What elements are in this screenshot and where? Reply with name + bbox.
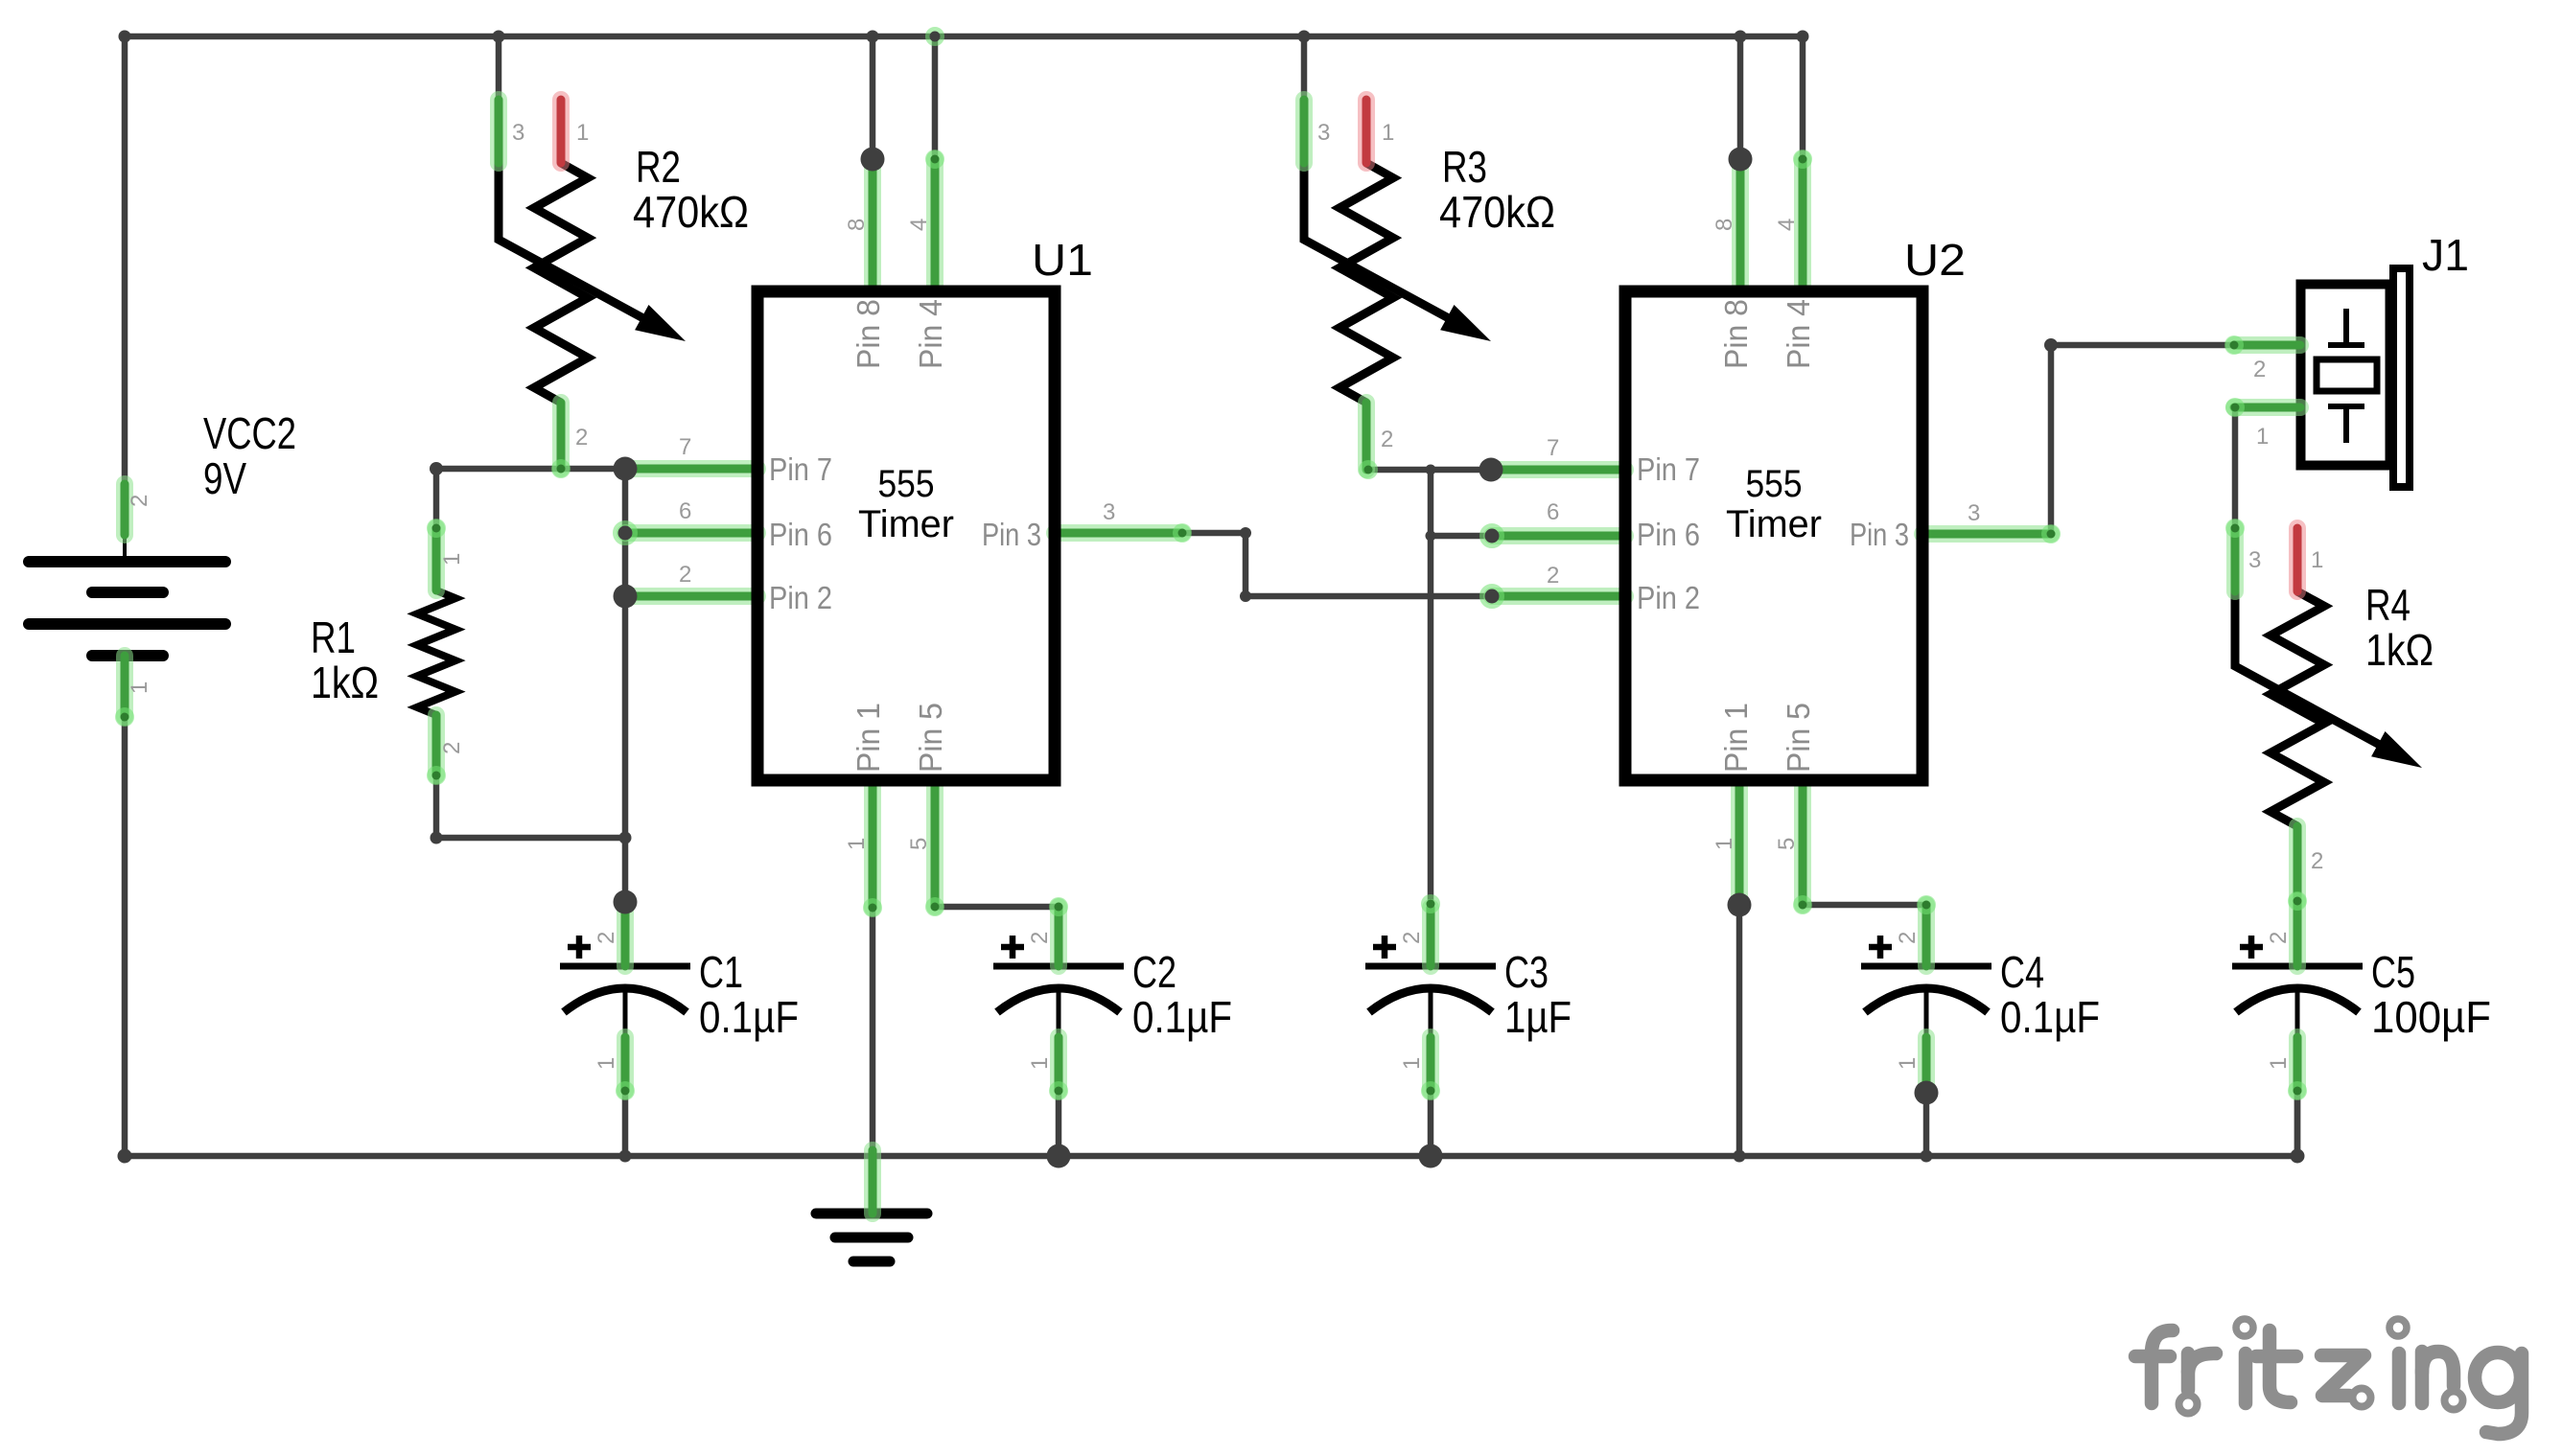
svg-text:2: 2 (1399, 932, 1425, 944)
svg-text:Pin 1: Pin 1 (850, 703, 886, 773)
svg-text:Pin 3: Pin 3 (1850, 517, 1909, 552)
svg-text:R3: R3 (1442, 142, 1487, 192)
svg-text:2: 2 (1381, 427, 1393, 452)
svg-text:1: 1 (1027, 1057, 1053, 1070)
svg-text:555: 555 (1746, 463, 1803, 505)
svg-text:2: 2 (439, 742, 465, 754)
svg-text:3: 3 (1103, 499, 1115, 525)
svg-text:Pin 2: Pin 2 (769, 580, 832, 615)
svg-text:1: 1 (594, 1057, 619, 1070)
svg-text:C3: C3 (1504, 947, 1549, 997)
svg-text:7: 7 (679, 434, 691, 460)
svg-text:9V: 9V (203, 453, 246, 503)
svg-text:1kΩ: 1kΩ (2365, 625, 2434, 675)
svg-text:5: 5 (1774, 838, 1800, 850)
svg-text:Pin 8: Pin 8 (1718, 299, 1754, 369)
svg-text:1: 1 (576, 120, 589, 146)
svg-text:Pin 6: Pin 6 (1637, 517, 1700, 552)
svg-text:8: 8 (844, 219, 870, 231)
svg-text:Pin 7: Pin 7 (769, 451, 832, 487)
svg-text:1: 1 (439, 553, 465, 566)
svg-text:7: 7 (1547, 435, 1559, 461)
svg-text:C5: C5 (2371, 947, 2415, 997)
svg-text:Pin 6: Pin 6 (769, 517, 832, 552)
svg-text:8: 8 (1712, 219, 1737, 231)
svg-text:470kΩ: 470kΩ (1439, 187, 1555, 237)
svg-text:Pin 5: Pin 5 (913, 703, 948, 773)
svg-text:2: 2 (1547, 563, 1559, 589)
svg-text:0.1µF: 0.1µF (699, 992, 799, 1042)
svg-text:5: 5 (906, 838, 932, 850)
svg-text:555: 555 (878, 463, 935, 505)
svg-text:Pin 3: Pin 3 (982, 517, 1041, 552)
svg-text:2: 2 (575, 425, 588, 451)
svg-text:2: 2 (679, 562, 691, 588)
svg-text:U1: U1 (1032, 235, 1093, 285)
svg-text:1: 1 (844, 838, 870, 850)
svg-text:0.1µF: 0.1µF (1132, 992, 1232, 1042)
svg-text:Pin 2: Pin 2 (1637, 580, 1700, 615)
svg-text:1: 1 (127, 682, 152, 694)
svg-text:R4: R4 (2365, 580, 2411, 630)
svg-text:100µF: 100µF (2371, 992, 2491, 1042)
svg-text:2: 2 (594, 932, 619, 944)
svg-text:1: 1 (2256, 424, 2269, 450)
svg-text:1: 1 (2311, 547, 2323, 573)
svg-text:C1: C1 (699, 947, 743, 997)
svg-text:Timer: Timer (858, 503, 954, 545)
svg-text:3: 3 (1317, 120, 1330, 146)
svg-text:VCC2: VCC2 (203, 408, 296, 458)
svg-text:1: 1 (1399, 1057, 1425, 1070)
svg-text:R2: R2 (636, 142, 681, 192)
svg-text:C2: C2 (1132, 947, 1176, 997)
svg-text:Pin 4: Pin 4 (913, 299, 948, 369)
svg-text:Pin 5: Pin 5 (1781, 703, 1816, 773)
svg-text:C4: C4 (2000, 947, 2044, 997)
svg-text:6: 6 (679, 498, 691, 524)
svg-text:2: 2 (2253, 357, 2266, 382)
svg-text:3: 3 (2248, 547, 2261, 573)
svg-text:1: 1 (1712, 838, 1737, 850)
svg-text:1kΩ: 1kΩ (311, 658, 379, 707)
svg-text:Pin 4: Pin 4 (1781, 299, 1816, 369)
svg-text:6: 6 (1547, 499, 1559, 525)
svg-text:0.1µF: 0.1µF (2000, 992, 2100, 1042)
svg-text:2: 2 (127, 495, 152, 507)
svg-text:2: 2 (1895, 932, 1921, 944)
svg-text:2: 2 (2311, 848, 2323, 874)
svg-text:R1: R1 (311, 612, 356, 662)
svg-text:2: 2 (1027, 932, 1053, 944)
svg-text:470kΩ: 470kΩ (633, 187, 749, 237)
svg-text:3: 3 (512, 120, 524, 146)
svg-text:1: 1 (1382, 120, 1394, 146)
svg-text:J1: J1 (2422, 230, 2469, 280)
svg-text:1: 1 (2266, 1057, 2292, 1070)
svg-text:2: 2 (2266, 932, 2292, 944)
svg-text:U2: U2 (1904, 235, 1966, 285)
svg-text:Pin 1: Pin 1 (1718, 703, 1754, 773)
svg-text:1µF: 1µF (1504, 992, 1572, 1042)
svg-text:4: 4 (1774, 219, 1800, 231)
svg-text:4: 4 (906, 219, 932, 231)
svg-text:Pin 7: Pin 7 (1637, 451, 1700, 487)
svg-text:3: 3 (1968, 500, 1980, 526)
svg-text:1: 1 (1895, 1057, 1921, 1070)
svg-text:Pin 8: Pin 8 (850, 299, 886, 369)
svg-text:Timer: Timer (1726, 503, 1822, 545)
